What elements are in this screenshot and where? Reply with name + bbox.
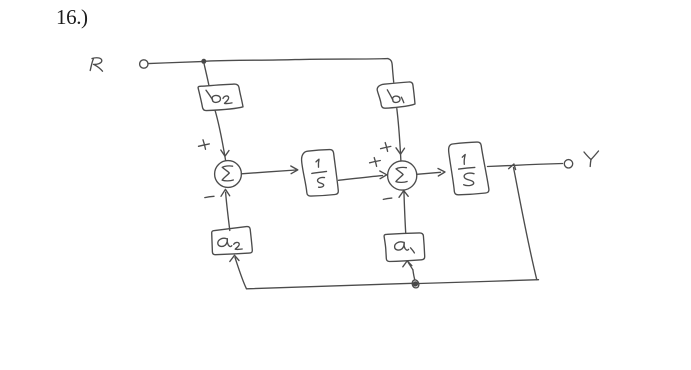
gain block a2 <box>212 227 253 255</box>
right feedback drop wire from output tap <box>514 168 537 280</box>
arrowhead into I2 <box>438 169 445 177</box>
gain block a1 <box>384 233 425 262</box>
wire junction up to a1 <box>408 262 413 269</box>
sigma in S1 <box>222 166 233 181</box>
arrowhead into a1 bottom <box>403 261 412 267</box>
output wire I2 to terminal <box>488 164 563 167</box>
summing junction S1 <box>215 161 242 188</box>
integrator block I1 (1/s) <box>302 150 339 197</box>
plus sign at S2 left input <box>370 158 381 167</box>
wire junction down to block b2 <box>204 64 209 85</box>
integrator block I2 (1/s) <box>449 142 489 195</box>
arrowhead into S2 left <box>380 171 387 179</box>
arrowhead into S2 top <box>396 148 405 154</box>
arrowhead into S1 top <box>221 150 229 156</box>
summing junction S2 <box>388 161 417 190</box>
arrowhead into S1 bottom <box>221 189 230 196</box>
plus sign at S2 top input <box>381 143 391 152</box>
junction node on top rail <box>201 59 206 64</box>
wire corner down to block b1 <box>388 59 394 83</box>
wire a1 up to summer S2 <box>404 191 406 233</box>
wire block a2 up to summer S1 <box>226 192 230 230</box>
sigma in S2 <box>396 167 407 182</box>
minus sign at S2 bottom input <box>383 198 392 199</box>
node Y label <box>584 151 599 167</box>
value label a1 <box>395 242 415 253</box>
wire top rail junction to b1 corner <box>206 59 388 62</box>
feedback junction node <box>412 270 419 288</box>
wire S2 to integrator I2 <box>417 172 441 174</box>
gain block b1 <box>377 82 415 108</box>
wire I1 to summer S2 <box>339 176 383 181</box>
wire input terminal to junction <box>148 62 201 64</box>
arrowhead into a2 bottom (feedback) <box>230 255 239 261</box>
tap arrowhead at output junction <box>509 164 516 170</box>
wire block b1 to summer S2 <box>397 109 401 161</box>
arrowhead into S2 bottom <box>399 191 408 198</box>
value label 1/s in I2 <box>459 155 475 186</box>
gain block b2 <box>198 84 243 111</box>
wire feedback to a2 <box>235 258 247 289</box>
minus sign at S1 bottom input <box>205 196 214 197</box>
input terminal circle (R) <box>140 60 148 68</box>
plus sign at S1 top input <box>199 140 210 150</box>
bottom feedback rail right segment <box>419 280 538 284</box>
wire S1 to integrator I1 <box>241 170 296 174</box>
value label b2 <box>206 90 232 103</box>
wire block b2 to summer S1 <box>215 110 226 160</box>
value label b1 <box>387 90 404 103</box>
value label 1/s in I1 <box>312 159 327 187</box>
output terminal circle (Y) <box>564 160 572 168</box>
problem number label "16.)" <box>56 5 88 30</box>
node R label <box>90 58 102 71</box>
arrowhead into I1 <box>291 166 298 174</box>
bottom feedback rail left segment <box>247 283 413 289</box>
value label a2 <box>218 238 242 249</box>
